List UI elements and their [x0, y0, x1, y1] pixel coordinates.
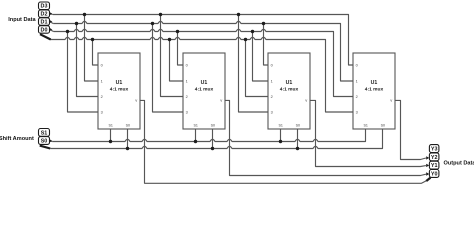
wire mux1 S1 stub — [110, 129, 112, 142]
wire L2 — [53, 21, 353, 81]
svg-text:Shift Amount: Shift Amount — [0, 136, 34, 142]
wire L1 — [53, 15, 353, 66]
wire mux2 Y out — [225, 100, 426, 175]
svg-text:4:1 mux: 4:1 mux — [365, 87, 384, 93]
svg-text:4:1 mux: 4:1 mux — [110, 87, 129, 93]
wire mux2 pin0 tap — [178, 32, 184, 66]
wire mux3 Y out — [310, 100, 426, 166]
wire mux3 pin2 tap — [246, 40, 269, 97]
node Y3 output tag — [429, 145, 439, 153]
junction — [176, 30, 179, 33]
svg-text:U1: U1 — [201, 80, 208, 86]
junction — [194, 140, 197, 143]
svg-text:S0: S0 — [296, 123, 300, 127]
svg-text:4:1 mux: 4:1 mux — [280, 87, 299, 93]
svg-text:3: 3 — [356, 111, 358, 115]
svg-text:S1: S1 — [108, 123, 112, 127]
wire D2 lead — [49, 13, 52, 16]
svg-text:D2: D2 — [41, 12, 48, 18]
wire L4 — [51, 37, 354, 112]
wire arrow — [426, 156, 429, 159]
svg-text:S1: S1 — [278, 123, 282, 127]
svg-text:D0: D0 — [41, 27, 48, 33]
svg-text:U1: U1 — [286, 80, 293, 86]
svg-text:1: 1 — [356, 80, 358, 84]
svg-text:S0: S0 — [211, 123, 215, 127]
svg-text:2: 2 — [271, 95, 273, 99]
wire D0 lead — [49, 29, 53, 31]
svg-text:0: 0 — [356, 64, 358, 68]
svg-text:3: 3 — [186, 111, 188, 115]
mux U2 4:1 body — [183, 53, 225, 129]
wire mux1 Y out — [140, 100, 426, 183]
wire mux2 S1 stub — [195, 129, 197, 142]
svg-text:Y0: Y0 — [431, 171, 438, 177]
wire S0 line — [50, 129, 382, 149]
wire D1 lead — [49, 22, 53, 24]
input connector tail (D0 wire) — [40, 34, 51, 39]
junction — [211, 147, 214, 150]
svg-text:S1: S1 — [193, 123, 197, 127]
node Y1 output tag — [429, 161, 439, 169]
svg-text:S0: S0 — [381, 123, 385, 127]
mux U1 4:1 body — [98, 53, 140, 129]
junction — [262, 22, 265, 25]
junction — [151, 22, 154, 25]
svg-text:4:1 mux: 4:1 mux — [195, 87, 214, 93]
wire S1 line — [52, 129, 365, 142]
svg-text:2: 2 — [101, 95, 103, 99]
junction — [66, 30, 69, 33]
svg-text:U1: U1 — [371, 80, 378, 86]
svg-text:0: 0 — [186, 64, 188, 68]
svg-text:2: 2 — [356, 95, 358, 99]
junction — [237, 13, 240, 16]
svg-text:2: 2 — [186, 95, 188, 99]
wire mux3 S1 stub — [280, 129, 282, 142]
svg-text:1: 1 — [186, 80, 188, 84]
junction — [109, 140, 112, 143]
svg-text:Y3: Y3 — [431, 146, 438, 152]
wire mux1 pin3 tap — [68, 32, 99, 113]
wire arrow — [426, 172, 429, 175]
wire arrow — [426, 164, 429, 167]
svg-text:S1: S1 — [363, 123, 367, 127]
svg-text:Y: Y — [305, 99, 308, 103]
wire mux2 pin1 tap — [170, 40, 184, 82]
node Y2 output tag — [429, 153, 439, 161]
junction — [91, 38, 94, 41]
junction — [159, 13, 162, 16]
wire arrow S0 — [49, 139, 52, 142]
svg-text:Y: Y — [135, 99, 138, 103]
wire mux3 pin0 tap — [264, 24, 269, 66]
svg-text:S0: S0 — [126, 123, 130, 127]
svg-text:Y2: Y2 — [431, 155, 438, 161]
wire mux1 pin0 tap — [93, 40, 99, 66]
svg-text:U1: U1 — [116, 80, 123, 86]
wire mux4 Y out — [395, 100, 426, 159]
svg-text:Input Data: Input Data — [8, 17, 36, 23]
wire mux3 pin1 tap — [253, 32, 269, 82]
node D2 input tag — [39, 10, 50, 18]
svg-text:D1: D1 — [41, 19, 48, 25]
svg-text:1: 1 — [101, 80, 103, 84]
output connector tail (Y0 wire from mux1) — [426, 178, 430, 181]
wire mux1 pin2 tap — [77, 24, 99, 97]
junction — [251, 30, 254, 33]
mux U3 4:1 body — [268, 53, 310, 129]
svg-text:0: 0 — [271, 64, 273, 68]
junction — [244, 38, 247, 41]
mux U4 4:1 body — [353, 53, 395, 129]
wire mux2 pin3 tap — [153, 24, 184, 113]
wire mux1 pin1 tap — [85, 15, 99, 82]
svg-text:Y: Y — [390, 99, 393, 103]
junction — [296, 147, 299, 150]
svg-text:S1: S1 — [41, 130, 48, 136]
wire arrow — [49, 20, 52, 23]
wire arrow — [49, 28, 52, 31]
svg-text:0: 0 — [101, 64, 103, 68]
wire arrow — [49, 12, 52, 15]
junction — [279, 140, 282, 143]
junction — [126, 147, 129, 150]
wire mux1 S0 stub — [127, 129, 129, 149]
wire L3 — [54, 29, 353, 96]
wire S1 lead — [49, 140, 52, 143]
wire mux2 pin2 tap — [161, 15, 184, 97]
junction — [83, 13, 86, 16]
wire mux2 S0 stub — [212, 129, 214, 149]
wire mux3 S0 stub — [297, 129, 299, 149]
svg-text:Y1: Y1 — [431, 163, 438, 169]
node D3 input tag — [39, 2, 50, 10]
svg-text:3: 3 — [271, 111, 273, 115]
junction — [75, 22, 78, 25]
svg-text:Y: Y — [220, 99, 223, 103]
svg-text:1: 1 — [271, 80, 273, 84]
wire mux3 pin3 tap — [239, 15, 269, 113]
shift connector tail (S0 wire) — [40, 146, 51, 149]
node Y0 output tag — [429, 170, 439, 178]
junction — [168, 38, 171, 41]
node D1 input tag — [39, 18, 50, 26]
node D0 input tag — [39, 26, 50, 34]
node S0 input tag — [39, 137, 50, 145]
svg-text:D3: D3 — [41, 4, 48, 10]
svg-text:S0: S0 — [41, 138, 48, 144]
node S1 input tag — [39, 129, 50, 137]
svg-text:Output Data: Output Data — [444, 160, 474, 166]
svg-text:3: 3 — [101, 111, 103, 115]
